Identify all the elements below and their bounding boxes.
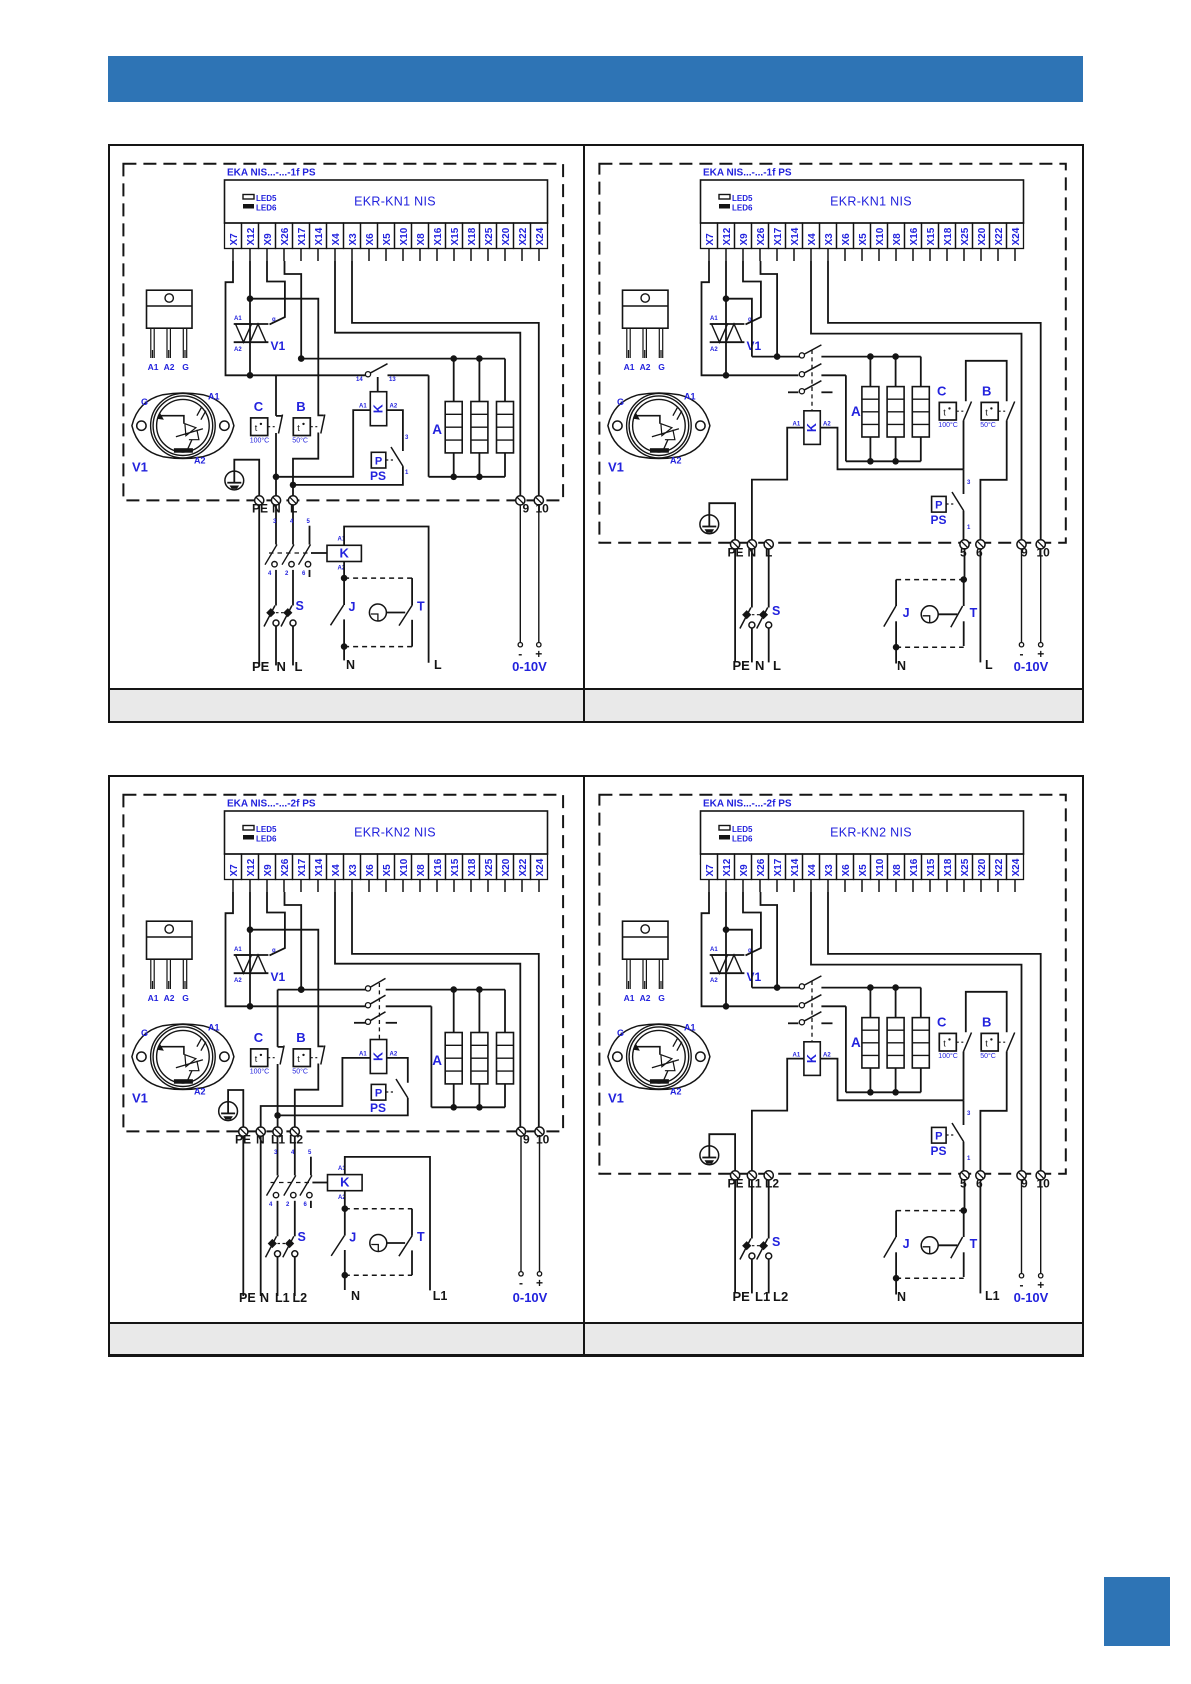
svg-text:LED6: LED6 [256,835,277,844]
svg-text:X22: X22 [994,227,1005,245]
svg-text:X7: X7 [705,864,716,877]
svg-text:3: 3 [967,1111,971,1117]
svg-text:A1: A1 [793,1053,801,1059]
svg-text:A1: A1 [624,362,635,372]
svg-text:5: 5 [960,1177,967,1191]
svg-text:2: 2 [286,1202,290,1208]
svg-text:X16: X16 [909,859,920,877]
svg-text:1: 1 [405,470,409,476]
svg-text:EKA NIS...-...-1f PS: EKA NIS...-...-1f PS [227,167,316,178]
svg-text:X22: X22 [517,227,528,245]
svg-text:V1: V1 [132,459,148,474]
svg-text:A2: A2 [823,1053,831,1059]
svg-text:X5: X5 [381,864,392,877]
svg-text:50°C: 50°C [980,421,996,429]
svg-text:t: t [985,407,988,417]
svg-text:X5: X5 [858,233,869,246]
svg-text:X15: X15 [926,859,937,877]
svg-text:X9: X9 [262,864,273,877]
svg-text:5: 5 [308,1150,312,1156]
svg-text:X9: X9 [262,233,273,246]
svg-text:X16: X16 [432,227,443,245]
svg-text:A1: A1 [208,1023,220,1033]
svg-text:T: T [970,1237,978,1251]
svg-text:L2: L2 [765,1177,779,1191]
svg-text:A2: A2 [670,1087,682,1097]
svg-text:K: K [371,1052,385,1061]
svg-text:X16: X16 [432,859,443,877]
svg-text:J: J [903,1237,910,1251]
svg-text:C: C [253,1030,263,1045]
svg-text:5: 5 [960,545,967,559]
svg-text:V1: V1 [270,339,285,353]
svg-text:X18: X18 [943,859,954,877]
svg-text:V1: V1 [608,459,624,474]
svg-text:T: T [417,1230,425,1244]
svg-text:J: J [903,606,910,620]
svg-text:0-10V: 0-10V [512,1290,547,1305]
svg-text:+: + [535,1276,542,1290]
svg-text:A1: A1 [208,391,220,401]
svg-text:t: t [254,423,257,433]
svg-text:A1: A1 [710,947,718,953]
svg-text:J: J [348,600,355,614]
svg-text:A: A [851,1035,861,1050]
svg-text:L: L [985,658,993,672]
svg-text:X15: X15 [926,227,937,245]
svg-text:A1: A1 [624,993,635,1003]
svg-text:X10: X10 [875,859,886,877]
svg-text:X3: X3 [347,233,358,246]
svg-text:N: N [276,659,285,674]
svg-text:X14: X14 [313,859,324,877]
svg-text:10: 10 [1037,1177,1051,1191]
svg-text:N: N [260,1291,269,1305]
svg-text:L1: L1 [748,1177,762,1191]
svg-text:B: B [296,399,305,414]
svg-text:L: L [294,659,302,674]
svg-text:X14: X14 [313,227,324,245]
svg-text:K: K [371,404,385,413]
svg-text:X12: X12 [722,859,733,877]
svg-text:X9: X9 [739,864,750,877]
svg-text:X17: X17 [296,859,307,877]
svg-text:P: P [935,1131,942,1143]
svg-text:X18: X18 [943,227,954,245]
svg-text:LED6: LED6 [732,835,753,844]
svg-text:LED6: LED6 [256,203,277,212]
svg-text:X6: X6 [364,233,375,246]
svg-text:0-10V: 0-10V [1014,1290,1049,1305]
svg-text:PE: PE [252,659,270,674]
svg-text:G: G [182,993,189,1003]
svg-text:X14: X14 [790,859,801,877]
svg-text:T: T [417,599,425,613]
svg-text:A2: A2 [640,362,651,372]
svg-text:K: K [339,545,349,560]
svg-text:K: K [340,1175,350,1190]
svg-text:X22: X22 [517,859,528,877]
svg-text:X8: X8 [415,233,426,246]
svg-text:EKA NIS...-...-2f PS: EKA NIS...-...-2f PS [227,799,316,810]
svg-text:X20: X20 [977,859,988,877]
svg-text:100°C: 100°C [939,1052,959,1060]
svg-text:X6: X6 [841,233,852,246]
svg-text:-: - [519,1276,523,1290]
svg-text:A1: A1 [359,403,367,409]
svg-text:A2: A2 [710,347,718,353]
svg-text:X4: X4 [330,864,341,877]
svg-text:3: 3 [967,480,971,486]
svg-text:V1: V1 [270,970,285,984]
svg-text:10: 10 [536,1133,550,1147]
svg-text:X8: X8 [892,233,903,246]
svg-text:EKR-KN1 NIS: EKR-KN1 NIS [354,194,436,208]
svg-text:t: t [254,1054,257,1064]
svg-text:2: 2 [285,571,289,577]
svg-text:X26: X26 [756,859,767,877]
svg-text:N: N [755,658,764,673]
svg-text:X26: X26 [279,859,290,877]
svg-text:S: S [297,1230,305,1244]
svg-text:100°C: 100°C [249,1068,269,1076]
svg-text:LED5: LED5 [732,194,753,203]
svg-text:PS: PS [931,1144,947,1158]
svg-text:A1: A1 [147,362,158,372]
svg-text:A1: A1 [234,316,242,322]
svg-text:X18: X18 [466,227,477,245]
svg-text:A2: A2 [670,455,682,465]
svg-text:A1: A1 [710,316,718,322]
svg-text:3: 3 [405,435,409,441]
svg-text:4: 4 [268,571,272,577]
svg-text:X15: X15 [449,227,460,245]
svg-text:N: N [897,1290,906,1304]
svg-text:0-10V: 0-10V [512,659,547,674]
svg-text:1: 1 [967,525,971,531]
svg-text:X15: X15 [449,859,460,877]
svg-text:X24: X24 [1011,227,1022,245]
svg-text:LED5: LED5 [256,825,277,834]
svg-text:G: G [658,993,665,1003]
svg-text:C: C [937,1015,947,1030]
svg-text:t: t [944,407,947,417]
svg-text:L1: L1 [432,1289,447,1303]
svg-text:L2: L2 [292,1291,307,1305]
svg-text:X7: X7 [228,864,239,877]
svg-text:X10: X10 [398,859,409,877]
svg-text:t: t [944,1039,947,1049]
svg-text:N: N [346,658,355,672]
svg-text:P: P [374,1088,381,1100]
svg-text:EKR-KN2 NIS: EKR-KN2 NIS [354,826,436,840]
svg-text:X26: X26 [756,227,767,245]
svg-text:S: S [772,604,780,618]
svg-text:A2: A2 [389,403,397,409]
svg-text:N: N [897,659,906,673]
svg-text:A1: A1 [684,391,696,401]
svg-text:T: T [970,606,978,620]
svg-text:X24: X24 [1011,859,1022,877]
svg-text:X20: X20 [500,227,511,245]
svg-text:4: 4 [269,1202,273,1208]
svg-text:t: t [297,423,300,433]
svg-text:G: G [141,1028,148,1038]
svg-text:X22: X22 [994,859,1005,877]
svg-text:B: B [982,383,991,398]
svg-text:A: A [851,404,861,419]
svg-text:6: 6 [303,1202,307,1208]
svg-text:L1: L1 [985,1289,1000,1303]
svg-text:P: P [935,499,942,511]
svg-text:C: C [253,399,263,414]
svg-text:A2: A2 [640,993,651,1003]
svg-text:X4: X4 [330,233,341,246]
svg-text:L2: L2 [773,1289,788,1304]
svg-text:X8: X8 [892,864,903,877]
svg-text:X17: X17 [773,227,784,245]
svg-text:G: G [617,1028,624,1038]
svg-text:X5: X5 [858,864,869,877]
svg-text:X3: X3 [347,864,358,877]
svg-text:B: B [982,1015,991,1030]
svg-text:P: P [374,455,381,467]
svg-text:L1: L1 [755,1289,770,1304]
svg-text:L: L [434,658,442,672]
svg-text:t: t [985,1039,988,1049]
svg-text:5: 5 [306,519,310,525]
svg-text:A2: A2 [234,978,242,984]
svg-text:A2: A2 [710,978,718,984]
svg-text:X24: X24 [534,227,545,245]
svg-text:V1: V1 [608,1091,624,1106]
svg-text:A: A [432,422,442,437]
svg-text:X14: X14 [790,227,801,245]
svg-text:X6: X6 [364,864,375,877]
svg-text:A2: A2 [823,421,831,427]
svg-text:X3: X3 [824,233,835,246]
svg-text:A2: A2 [194,1087,206,1097]
svg-text:K: K [805,1054,819,1063]
svg-text:9: 9 [522,501,529,515]
svg-text:LED6: LED6 [732,203,753,212]
svg-text:50°C: 50°C [980,1052,996,1060]
svg-text:EKA NIS...-...-1f PS: EKA NIS...-...-1f PS [703,167,792,178]
svg-text:L: L [773,658,781,673]
svg-text:A1: A1 [234,947,242,953]
svg-text:V1: V1 [747,339,762,353]
svg-text:X16: X16 [909,227,920,245]
svg-text:X9: X9 [739,233,750,246]
svg-text:V1: V1 [132,1091,148,1106]
svg-text:X10: X10 [398,227,409,245]
svg-text:X25: X25 [483,227,494,245]
svg-text:S: S [772,1235,780,1249]
svg-text:K: K [805,423,819,432]
svg-text:14: 14 [356,377,363,383]
svg-text:X18: X18 [466,859,477,877]
svg-text:PS: PS [370,469,386,483]
svg-text:X17: X17 [773,859,784,877]
svg-text:N: N [351,1289,360,1303]
svg-text:L1: L1 [275,1291,290,1305]
svg-text:X20: X20 [500,859,511,877]
svg-text:PS: PS [370,1101,386,1115]
svg-text:PS: PS [931,513,947,527]
svg-text:1: 1 [967,1156,971,1162]
svg-text:V1: V1 [747,970,762,984]
svg-text:10: 10 [1037,545,1051,559]
svg-text:A1: A1 [359,1052,367,1058]
svg-text:PE: PE [733,1289,751,1304]
svg-text:C: C [937,383,947,398]
svg-text:X6: X6 [841,864,852,877]
svg-text:X17: X17 [296,227,307,245]
svg-text:A2: A2 [163,362,174,372]
svg-text:X25: X25 [960,227,971,245]
svg-text:L2: L2 [289,1133,303,1147]
svg-text:100°C: 100°C [939,421,959,429]
svg-text:G: G [658,362,665,372]
svg-text:LED5: LED5 [256,194,277,203]
svg-text:X8: X8 [415,864,426,877]
svg-text:A2: A2 [194,455,206,465]
svg-text:X3: X3 [824,864,835,877]
svg-text:PE: PE [733,658,751,673]
svg-text:X4: X4 [807,864,818,877]
svg-text:B: B [296,1030,305,1045]
svg-text:A1: A1 [793,421,801,427]
svg-text:LED5: LED5 [732,825,753,834]
svg-text:X12: X12 [245,859,256,877]
svg-text:G: G [182,362,189,372]
svg-text:X4: X4 [807,233,818,246]
svg-text:EKR-KN1 NIS: EKR-KN1 NIS [830,194,912,208]
svg-text:J: J [349,1231,356,1245]
svg-text:X12: X12 [245,227,256,245]
svg-text:A1: A1 [684,1023,696,1033]
svg-text:X20: X20 [977,227,988,245]
svg-text:X5: X5 [381,233,392,246]
svg-text:A2: A2 [389,1052,397,1058]
svg-text:13: 13 [389,377,396,383]
svg-text:X24: X24 [534,859,545,877]
svg-text:A2: A2 [163,993,174,1003]
svg-text:EKA NIS...-...-2f PS: EKA NIS...-...-2f PS [703,799,792,810]
svg-text:10: 10 [535,501,549,515]
svg-text:X7: X7 [228,233,239,246]
svg-text:G: G [617,397,624,407]
svg-text:9: 9 [523,1133,530,1147]
svg-text:PE: PE [239,1291,256,1305]
svg-text:50°C: 50°C [292,1068,308,1076]
svg-text:X26: X26 [279,227,290,245]
svg-text:A: A [432,1053,442,1068]
svg-text:6: 6 [302,571,306,577]
svg-text:0-10V: 0-10V [1014,659,1049,674]
svg-text:S: S [295,599,303,613]
svg-text:X10: X10 [875,227,886,245]
svg-text:EKR-KN2 NIS: EKR-KN2 NIS [830,826,912,840]
svg-text:A1: A1 [147,993,158,1003]
svg-text:t: t [297,1054,300,1064]
svg-text:X12: X12 [722,227,733,245]
svg-text:A2: A2 [234,347,242,353]
svg-text:G: G [141,397,148,407]
svg-text:50°C: 50°C [292,436,308,444]
svg-text:X25: X25 [483,859,494,877]
svg-text:X7: X7 [705,233,716,246]
svg-text:100°C: 100°C [249,436,269,444]
svg-text:X25: X25 [960,859,971,877]
